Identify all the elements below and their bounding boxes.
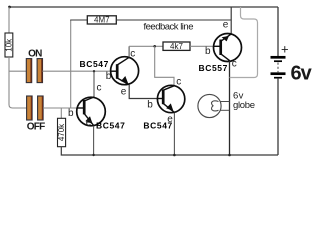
svg-text:c: c	[232, 58, 237, 69]
wire Q1 collector vertical	[93, 71, 95, 97]
wire grey bypass loop	[230, 7, 258, 78]
wire 4M7 feedback vertical drop to Q1 base	[70, 20, 72, 108]
svg-text:BC547: BC547	[80, 59, 109, 69]
resistor 10k	[5, 33, 14, 57]
svg-text:e: e	[86, 118, 92, 129]
resistor 4M7	[87, 16, 116, 25]
wire BC557 collector down through globe to rail	[229, 61, 231, 155]
svg-text:feedback line: feedback line	[144, 22, 194, 33]
svg-text:10k: 10k	[5, 38, 14, 52]
svg-text:e: e	[121, 87, 127, 98]
wire 4k7 to BC557 base	[190, 45, 214, 47]
node Q1 emitter rail junction	[92, 154, 94, 156]
label 6v globe	[233, 90, 255, 110]
svg-text:globe: globe	[233, 100, 255, 111]
wire Q1 emitter to rail	[93, 126, 95, 155]
lamp 6v globe	[198, 94, 230, 117]
wire ON branch	[9, 70, 27, 72]
svg-text:+: +	[281, 42, 289, 57]
node globe rail junction	[228, 154, 231, 157]
svg-text:c: c	[97, 83, 102, 94]
svg-text:470k: 470k	[57, 123, 66, 141]
svg-text:b: b	[205, 46, 211, 57]
node top-left junction	[8, 6, 11, 9]
transistor Q2 BC547	[111, 57, 139, 85]
wire ON cap to Q2 base	[43, 70, 112, 72]
wire left rail lower segment to OFF cap	[9, 57, 27, 108]
svg-text:b: b	[68, 108, 74, 119]
wire left rail upper segment	[8, 7, 10, 34]
wire Q2 collector vertical	[128, 46, 130, 57]
wire Q2 emitter to Q3 base	[129, 85, 163, 99]
transistor Q4 BC557	[214, 34, 242, 62]
svg-text:6v: 6v	[291, 62, 313, 84]
wire 470k to bottom rail	[61, 147, 278, 155]
resistor 4k7	[163, 42, 190, 51]
wire Q3 emitter to rail	[173, 113, 175, 155]
transistor Q3 BC547	[157, 85, 184, 112]
wire OFF cap to Q1 base	[43, 107, 78, 109]
resistor 470k	[57, 118, 66, 146]
wire Q2 collector to 4k7	[129, 45, 163, 47]
svg-text:BC557: BC557	[199, 63, 228, 73]
svg-text:b: b	[147, 99, 153, 110]
node 4k7 left junction	[153, 45, 156, 48]
svg-text:e: e	[223, 20, 229, 31]
battery B1 6v	[271, 7, 286, 155]
wire BC557 emitter from rail	[230, 7, 232, 34]
node Q1 collector junction	[93, 70, 95, 72]
capacitor OFF	[27, 96, 43, 120]
svg-text:BC547: BC547	[96, 121, 125, 131]
svg-text:OFF: OFF	[27, 122, 45, 133]
svg-text:4k7: 4k7	[170, 42, 183, 51]
node Q3 emitter rail junction	[173, 154, 176, 157]
wire 470k stub	[60, 108, 62, 119]
wire 4M7 left lead	[70, 19, 87, 21]
wire feedback line	[116, 19, 231, 21]
wire top positive rail	[9, 6, 278, 8]
svg-text:4M7: 4M7	[94, 16, 110, 25]
svg-text:ON: ON	[28, 49, 42, 60]
wire Q3 collector path	[155, 46, 174, 86]
transistor Q1 BC547	[77, 97, 106, 126]
svg-text:BC547: BC547	[143, 121, 172, 131]
svg-text:c: c	[176, 77, 181, 88]
svg-text:b: b	[106, 71, 112, 82]
svg-text:c: c	[130, 49, 135, 60]
capacitor ON	[26, 59, 42, 83]
